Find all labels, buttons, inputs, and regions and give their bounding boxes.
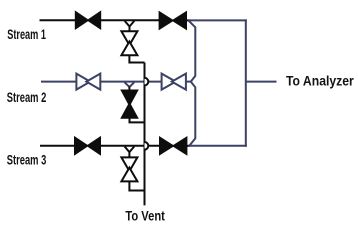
wire stream 3 outlet stub [187,145,191,147]
svg-text:Stream 2: Stream 2 [7,89,47,105]
tee node stream 3 bleed takeoff [125,147,135,158]
wire stream 3 between block valves [100,145,160,147]
block valve stream3 upstream (closed, filled) [74,136,101,156]
wire vent header vertical [144,63,146,206]
block valve stream3 downstream (closed, filled) [159,136,187,156]
wire analyzer header vertical 2 [245,19,247,146]
tee node stream 2 bleed takeoff [125,82,135,87]
crossover hop over stream 3 [145,142,149,150]
bleed valve stream 1 (open, hollow) [121,31,137,55]
bleed valve stream 2 (closed, filled) [120,90,139,119]
wire analyzer header bottom [189,145,247,147]
wire analyzer header top [188,19,247,21]
svg-text:Stream 3: Stream 3 [7,152,47,168]
tee node stream 1 bleed takeoff [125,21,135,31]
wire bleed 2 outlet to vent header [130,119,144,123]
wire bleed 3 outlet to vent header [129,181,143,190]
block valve stream2 downstream (open, hollow) [162,74,186,90]
block valve stream1 downstream (closed, filled) [159,11,187,31]
block valve stream1 upstream (closed, filled) [75,10,101,30]
wire stream 2 between block valves [100,81,162,83]
wire stream 1 inlet [40,19,77,21]
wire stream 2 inlet [41,81,77,83]
block valve stream2 upstream (open, hollow) [76,74,100,90]
wire stream 1 between block valves [100,19,160,21]
wire bleed 1 outlet to vent header [129,55,144,62]
wire stub tee to bleed 2 [128,87,130,91]
wire stream 1 outlet stub [186,19,191,21]
svg-text:To Vent: To Vent [125,207,165,223]
svg-text:Stream 1: Stream 1 [7,26,46,42]
bleed valve stream 3 (open, hollow) [121,157,137,181]
wire branch to analyzer [246,81,277,83]
wire stream 3 inlet [40,145,76,147]
crossover hop over stream 2 [145,78,149,86]
wire sample header vertical 1 [189,21,196,146]
wire stream 2 outlet stub [186,81,192,83]
svg-text:To Analyzer: To Analyzer [286,73,354,89]
